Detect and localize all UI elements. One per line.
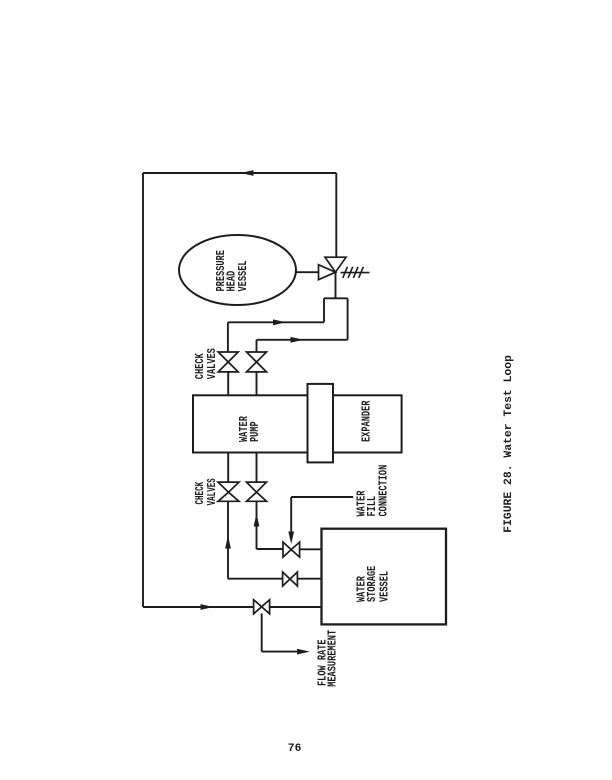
svg-text:VALVES: VALVES xyxy=(206,348,220,379)
svg-text:VESSEL: VESSEL xyxy=(379,571,393,602)
label: PRESSURE HEAD VESSEL xyxy=(215,250,251,291)
coupling box between pump and expander xyxy=(308,384,334,463)
wire: pump bottom to check valve 4 xyxy=(256,453,258,483)
wire: pressure vessel to relief valve xyxy=(296,271,319,273)
label: CHECK VALVES (upper) xyxy=(194,348,220,379)
svg-text:VALVES: VALVES xyxy=(206,478,219,505)
flow arrow down on fill connection xyxy=(288,532,294,545)
label: WATER STORAGE VESSEL xyxy=(355,566,392,602)
check valve 3 (lower left) xyxy=(218,482,239,501)
wire: relief valve down to discharge header xyxy=(335,272,337,298)
flow arrow right on discharge run 2 xyxy=(291,337,304,343)
flow arrow right on discharge run 1 xyxy=(273,319,286,325)
wire: flow measurement stub xyxy=(262,651,299,653)
wire: valve to storage vessel at 579 xyxy=(297,578,321,580)
wire: check valve 2 discharge run xyxy=(257,339,348,341)
wire: loop top return line xyxy=(143,172,336,174)
wire: check valve 2 to pump top xyxy=(256,372,258,395)
label: WATER PUMP xyxy=(238,416,263,442)
wire: riser above check valve 2 xyxy=(256,340,258,352)
wire: header left vertical xyxy=(323,298,325,322)
wire: check valve 1 to pump top xyxy=(227,372,229,395)
relief valve (3-way, vent to atmosphere) xyxy=(319,257,347,280)
wire: loop bottom line to drain valve xyxy=(143,606,254,608)
wire: suction riser below check valve 3 xyxy=(227,501,229,578)
suction line valve at 579 xyxy=(283,572,298,586)
wire: loop right vertical to relief valve xyxy=(335,173,337,257)
flow arrow right on bottom line xyxy=(201,604,214,610)
wire: suction riser below check valve 4 xyxy=(256,501,258,549)
flow arrow up on suction riser 1 xyxy=(225,536,231,549)
wire: water fill connection horizontal xyxy=(291,496,353,498)
water fill valve xyxy=(283,542,300,557)
wire: discharge header horizontal xyxy=(324,297,348,299)
svg-text:CONNECTION: CONNECTION xyxy=(378,465,392,517)
check valve 2 (upper right) xyxy=(247,352,267,372)
wire: drop below drain valve xyxy=(261,613,263,651)
label: CHECK VALVES (lower) xyxy=(194,478,219,505)
wire: pump bottom to check valve 3 xyxy=(227,453,229,483)
wire: header right vertical xyxy=(347,298,349,340)
svg-text:EXPANDER: EXPANDER xyxy=(360,400,374,442)
wire: loop left vertical line xyxy=(142,173,144,607)
water storage vessel box xyxy=(322,529,447,625)
check valve 4 (lower right) xyxy=(247,482,267,501)
check valve 1 (upper left) xyxy=(218,352,238,372)
wire: check valve 1 discharge run xyxy=(228,321,324,323)
svg-text:PUMP: PUMP xyxy=(249,421,263,442)
label: FLOW RATE MEASUREMENT xyxy=(317,630,341,687)
svg-text:MEASUREMENT: MEASUREMENT xyxy=(327,630,341,687)
svg-text:VESSEL: VESSEL xyxy=(237,260,251,291)
drain valve on bottom line xyxy=(254,600,270,614)
wire: riser above check valve 1 xyxy=(227,322,229,352)
flow arrow up on suction riser 2 xyxy=(254,514,260,527)
water pump box xyxy=(193,395,308,452)
pressure head vessel ellipse xyxy=(179,235,296,305)
wire: vessel suction run to check valve 3 riser xyxy=(228,578,283,580)
wire: suction run vessel to check valve 4 xyxy=(257,548,284,550)
svg-text:FIGURE 28. Water Test Loop: FIGURE 28. Water Test Loop xyxy=(503,355,515,533)
wire: fill valve to storage vessel xyxy=(300,548,322,550)
label: WATER FILL CONNECTION xyxy=(356,465,392,517)
vent hatching xyxy=(341,267,370,278)
flow arrow left on top line xyxy=(241,170,254,176)
svg-text:76: 76 xyxy=(288,743,302,755)
flow arrow right on flow measurement stub xyxy=(297,649,310,655)
wire: water fill connection drop xyxy=(290,497,292,534)
wire: drain valve to storage vessel xyxy=(270,606,322,608)
expander box xyxy=(333,395,402,452)
